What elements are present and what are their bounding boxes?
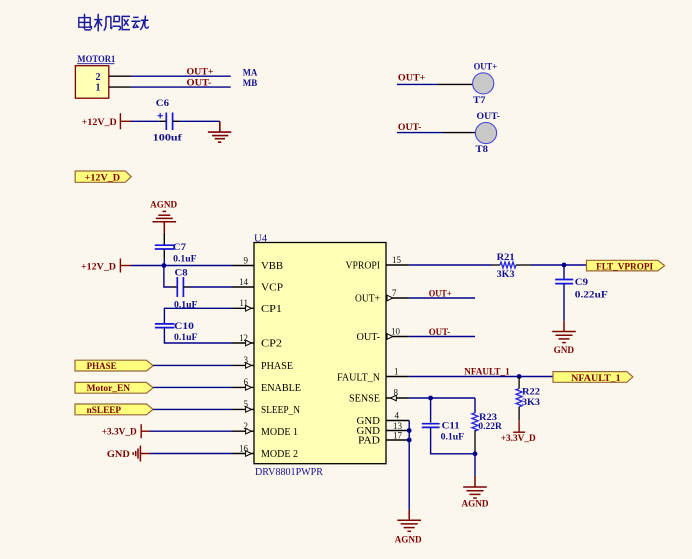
svg-text:NFAULT_1: NFAULT_1 <box>464 368 510 378</box>
svg-text:Motor_EN: Motor_EN <box>87 384 131 394</box>
svg-text:T7: T7 <box>473 96 486 106</box>
svg-text:OUT+: OUT+ <box>398 73 426 83</box>
wire R21 to FLT_VPROPI <box>516 264 531 266</box>
wire PHASE to pin 3 <box>153 364 232 366</box>
power ground GND (at MODE 2) <box>107 446 150 462</box>
svg-text:0.1uF: 0.1uF <box>441 433 465 443</box>
svg-text:13: 13 <box>393 421 403 431</box>
wire CP2 pin 12 <box>164 328 232 343</box>
capacitor C6 <box>153 99 183 144</box>
svg-text:VCP: VCP <box>261 282 283 294</box>
svg-text:C10: C10 <box>174 322 194 332</box>
svg-text:C6: C6 <box>156 99 169 109</box>
U4 input pin arrows (left edge) <box>246 306 252 457</box>
junction (pin 13) <box>407 428 412 433</box>
svg-text:CP1: CP1 <box>261 303 282 315</box>
port +12V_D (standalone) <box>75 171 131 183</box>
wire nSLEEP to pin 5 <box>153 408 232 410</box>
svg-text:0.1uF: 0.1uF <box>173 254 197 264</box>
op-amp/driver IC U4 DRV8801PWPR body <box>254 232 386 478</box>
port Motor_EN <box>75 382 153 394</box>
svg-text:AGND: AGND <box>462 500 489 510</box>
svg-text:3K3: 3K3 <box>522 398 540 408</box>
wire FAULT_N pin 1 to port <box>409 376 553 378</box>
wire C11 to AGND junction <box>431 427 475 453</box>
svg-text:GND: GND <box>554 346 575 356</box>
驱 <box>113 16 130 30</box>
svg-text:17: 17 <box>393 430 403 440</box>
wire SENSE corner down to R23 <box>474 398 476 413</box>
svg-text:+3.3V_D: +3.3V_D <box>102 427 137 437</box>
svg-text:AGND: AGND <box>395 535 422 545</box>
wire junction to C9 <box>563 265 565 279</box>
svg-text:PHASE: PHASE <box>261 360 293 372</box>
svg-text:OUT-: OUT- <box>398 123 422 133</box>
svg-text:C11: C11 <box>442 422 460 432</box>
U4 pin stubs (left, black) <box>232 266 254 454</box>
wire SENSE pin 8 <box>409 397 475 399</box>
wire +3.3V_D to MODE 1 pin 2 <box>150 430 232 432</box>
svg-text:CP2: CP2 <box>261 338 282 350</box>
svg-text:9: 9 <box>244 255 249 265</box>
svg-text:15: 15 <box>392 255 402 265</box>
svg-text:OUT+: OUT+ <box>429 289 452 299</box>
svg-text:NFAULT_1: NFAULT_1 <box>571 374 621 384</box>
svg-text:ENABLE: ENABLE <box>261 382 301 394</box>
wire C6 to ground <box>179 120 220 122</box>
svg-text:PHASE: PHASE <box>87 362 117 372</box>
wire +12V_D to C6 <box>131 120 160 122</box>
capacitor C8 <box>171 268 198 310</box>
junction (pin 17) <box>407 438 412 443</box>
port nSLEEP <box>75 404 153 416</box>
svg-text:C7: C7 <box>173 243 186 253</box>
svg-text:MB: MB <box>243 79 258 89</box>
U4 pin numbers (right) <box>391 255 403 441</box>
wire C11 branch <box>430 398 432 423</box>
wire GND/PAD bus (pins 4,13,17) <box>408 421 410 510</box>
svg-text:OUT+: OUT+ <box>355 293 380 305</box>
ground GND (under C9) <box>552 321 576 356</box>
junction (VPROPI node) <box>562 263 567 268</box>
svg-text:R22: R22 <box>522 387 540 397</box>
resistor R22 <box>516 377 540 421</box>
power port AGND (top, above C7) <box>150 201 177 233</box>
svg-text:C9: C9 <box>575 278 588 288</box>
svg-text:MA: MA <box>243 69 258 79</box>
机 <box>94 14 112 32</box>
U4 output pin arrows (right edge) <box>387 295 396 401</box>
svg-text:C8: C8 <box>175 268 188 278</box>
svg-text:100uf: 100uf <box>153 134 183 144</box>
resistor R23 <box>472 413 502 454</box>
svg-text:MODE 1: MODE 1 <box>261 426 298 438</box>
power port +12V_D (at pin 9) <box>81 259 131 273</box>
svg-text:VPROPI: VPROPI <box>346 260 381 272</box>
U4 pin names (left) <box>261 260 301 460</box>
capacitor C11 <box>422 422 464 443</box>
power port +3.3V_D (at MODE 1) <box>102 424 150 438</box>
svg-text:FAULT_N: FAULT_N <box>337 372 380 384</box>
svg-text:OUT-: OUT- <box>477 112 501 122</box>
ground (C6) <box>208 121 231 142</box>
power port +12V_D (at C6) <box>82 113 131 129</box>
wire OUT- pin 10 <box>409 336 475 338</box>
wire MB <box>131 86 231 88</box>
wire C7 to junction <box>163 258 165 266</box>
U4 pin numbers (left) <box>239 255 249 453</box>
svg-text:+12V_D: +12V_D <box>81 262 116 272</box>
U4 pin names (right) <box>337 260 380 447</box>
capacitor C7 <box>155 233 197 265</box>
svg-text:T8: T8 <box>476 145 489 155</box>
svg-text:1: 1 <box>96 83 101 94</box>
testpoint T7 <box>397 63 497 106</box>
testpoint T8 <box>397 112 500 155</box>
svg-text:MODE 2: MODE 2 <box>261 448 298 460</box>
svg-text:14: 14 <box>239 277 249 287</box>
ground AGND (under R23/C11) <box>462 476 489 510</box>
ground AGND (bottom, pins bus) <box>395 510 422 546</box>
wire MA <box>131 75 231 77</box>
connector MOTOR1 <box>75 54 131 98</box>
junction (SENSE node) <box>428 396 433 401</box>
power port +3.3V_D (under R22) <box>501 420 536 444</box>
svg-text:R21: R21 <box>497 253 515 263</box>
wire C9 to GND <box>563 284 565 321</box>
port FLT_VPROPI <box>587 260 665 272</box>
svg-text:MOTOR1: MOTOR1 <box>77 54 115 64</box>
wire +12V_D to VBB pin 9 <box>131 265 232 267</box>
wire CP1 pin 11 <box>164 308 232 324</box>
title 电机驱动 <box>79 14 149 32</box>
svg-text:AGND: AGND <box>150 201 177 211</box>
svg-text:10: 10 <box>391 326 401 336</box>
svg-text:0.1uF: 0.1uF <box>174 333 198 343</box>
svg-text:OUT+: OUT+ <box>474 63 498 73</box>
resistor R21 <box>497 253 516 280</box>
svg-text:OUT-: OUT- <box>429 328 451 338</box>
svg-text:OUT-: OUT- <box>357 331 381 343</box>
wire GND to MODE 2 pin 16 <box>150 453 232 455</box>
U4 pin stubs (right, black) <box>386 265 409 440</box>
svg-text:0.22uF: 0.22uF <box>575 290 608 300</box>
port PHASE <box>75 360 153 372</box>
svg-text:+12V_D: +12V_D <box>85 173 121 183</box>
capacitor C9 <box>555 278 608 300</box>
动 <box>131 16 148 30</box>
port NFAULT_1 <box>553 372 633 384</box>
svg-text:OUT+: OUT+ <box>187 67 214 77</box>
svg-text:GND: GND <box>107 450 130 460</box>
wire OUT+ pin 7 <box>409 297 475 299</box>
svg-text:DRV8801PWPR: DRV8801PWPR <box>255 467 323 478</box>
wire C8 to VCP pin 14 <box>190 286 232 288</box>
svg-text:nSLEEP: nSLEEP <box>87 406 122 416</box>
junction (VBB node) <box>162 263 167 268</box>
svg-text:+3.3V_D: +3.3V_D <box>501 434 536 444</box>
svg-text:VBB: VBB <box>261 260 283 272</box>
wire VPROPI pin 15 to R21 <box>409 264 492 266</box>
svg-text:4: 4 <box>395 410 400 420</box>
svg-text:1: 1 <box>394 366 399 376</box>
svg-text:0.22R: 0.22R <box>478 422 502 432</box>
电 <box>79 14 92 30</box>
svg-text:U4: U4 <box>254 232 268 244</box>
svg-text:3K3: 3K3 <box>497 270 515 280</box>
svg-text:OUT-: OUT- <box>187 77 212 87</box>
svg-text:SLEEP_N: SLEEP_N <box>261 404 300 416</box>
svg-text:SENSE: SENSE <box>349 393 380 405</box>
junction (FAULT node) <box>517 374 522 379</box>
svg-text:7: 7 <box>392 288 397 298</box>
svg-text:+12V_D: +12V_D <box>82 118 117 128</box>
junction (AGND node) <box>473 451 478 456</box>
svg-text:FLT_VPROPI: FLT_VPROPI <box>596 263 653 273</box>
wire junction to C8 <box>164 266 171 288</box>
wire Motor_EN to pin 6 <box>153 386 232 388</box>
capacitor C10 <box>155 322 198 343</box>
svg-text:PAD: PAD <box>358 435 380 447</box>
wire junction down <box>474 454 476 476</box>
